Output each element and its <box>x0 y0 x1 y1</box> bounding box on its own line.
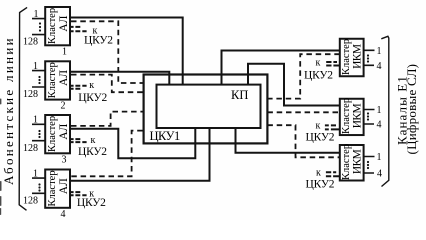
svg-text:к: к <box>91 135 96 146</box>
svg-text:4: 4 <box>377 61 382 72</box>
svg-text:ЦКУ1: ЦКУ1 <box>150 129 180 143</box>
svg-text:к: к <box>316 168 321 179</box>
svg-text:Кластер: Кластер <box>47 8 58 44</box>
svg-text:3: 3 <box>62 155 67 166</box>
svg-text:128: 128 <box>23 36 38 47</box>
svg-text:к: к <box>89 80 94 91</box>
svg-text:2: 2 <box>61 101 66 112</box>
svg-text:1: 1 <box>33 169 38 180</box>
svg-text:к: к <box>316 58 321 69</box>
svg-text:128: 128 <box>23 89 38 100</box>
svg-text:Кластер: Кластер <box>47 116 58 152</box>
svg-text:ЦКУ2: ЦКУ2 <box>78 146 107 158</box>
svg-text:4: 4 <box>61 209 66 220</box>
svg-text:128: 128 <box>23 143 38 154</box>
svg-text:1: 1 <box>33 61 38 72</box>
svg-text:к: к <box>316 120 321 131</box>
svg-text:ИКМ: ИКМ <box>351 104 363 129</box>
svg-text:ЦКУ2: ЦКУ2 <box>84 34 113 46</box>
svg-text:ИКМ: ИКМ <box>351 44 363 69</box>
svg-text:ЦКУ2: ЦКУ2 <box>306 178 335 190</box>
svg-text:АЛ: АЛ <box>58 178 70 194</box>
svg-text:АЛ: АЛ <box>58 123 70 139</box>
svg-text:1: 1 <box>62 47 67 58</box>
svg-text:ЦКУ2: ЦКУ2 <box>306 132 335 144</box>
svg-text:КП: КП <box>231 88 248 102</box>
svg-text:ЦКУ2: ЦКУ2 <box>77 197 106 209</box>
svg-text:ИКМ: ИКМ <box>351 149 363 174</box>
svg-text:4: 4 <box>377 120 382 131</box>
svg-text:1: 1 <box>377 46 382 57</box>
svg-text:Абонентские линии: Абонентские линии <box>1 36 16 185</box>
svg-text:АЛ: АЛ <box>58 15 70 31</box>
svg-text:АЛ: АЛ <box>58 70 70 86</box>
svg-text:1: 1 <box>377 152 382 163</box>
svg-text:128: 128 <box>23 196 38 207</box>
svg-text:ЦКУ2: ЦКУ2 <box>78 92 107 104</box>
svg-text:1: 1 <box>34 9 39 20</box>
svg-text:ЦКУ2: ЦКУ2 <box>304 69 333 81</box>
svg-text:Кластер: Кластер <box>47 62 58 98</box>
svg-text:1: 1 <box>377 105 382 116</box>
svg-text:Кластер: Кластер <box>47 170 58 206</box>
svg-text:1: 1 <box>33 115 38 126</box>
svg-text:4: 4 <box>377 169 382 180</box>
svg-text:(Цифровые СЛ): (Цифровые СЛ) <box>404 64 419 155</box>
